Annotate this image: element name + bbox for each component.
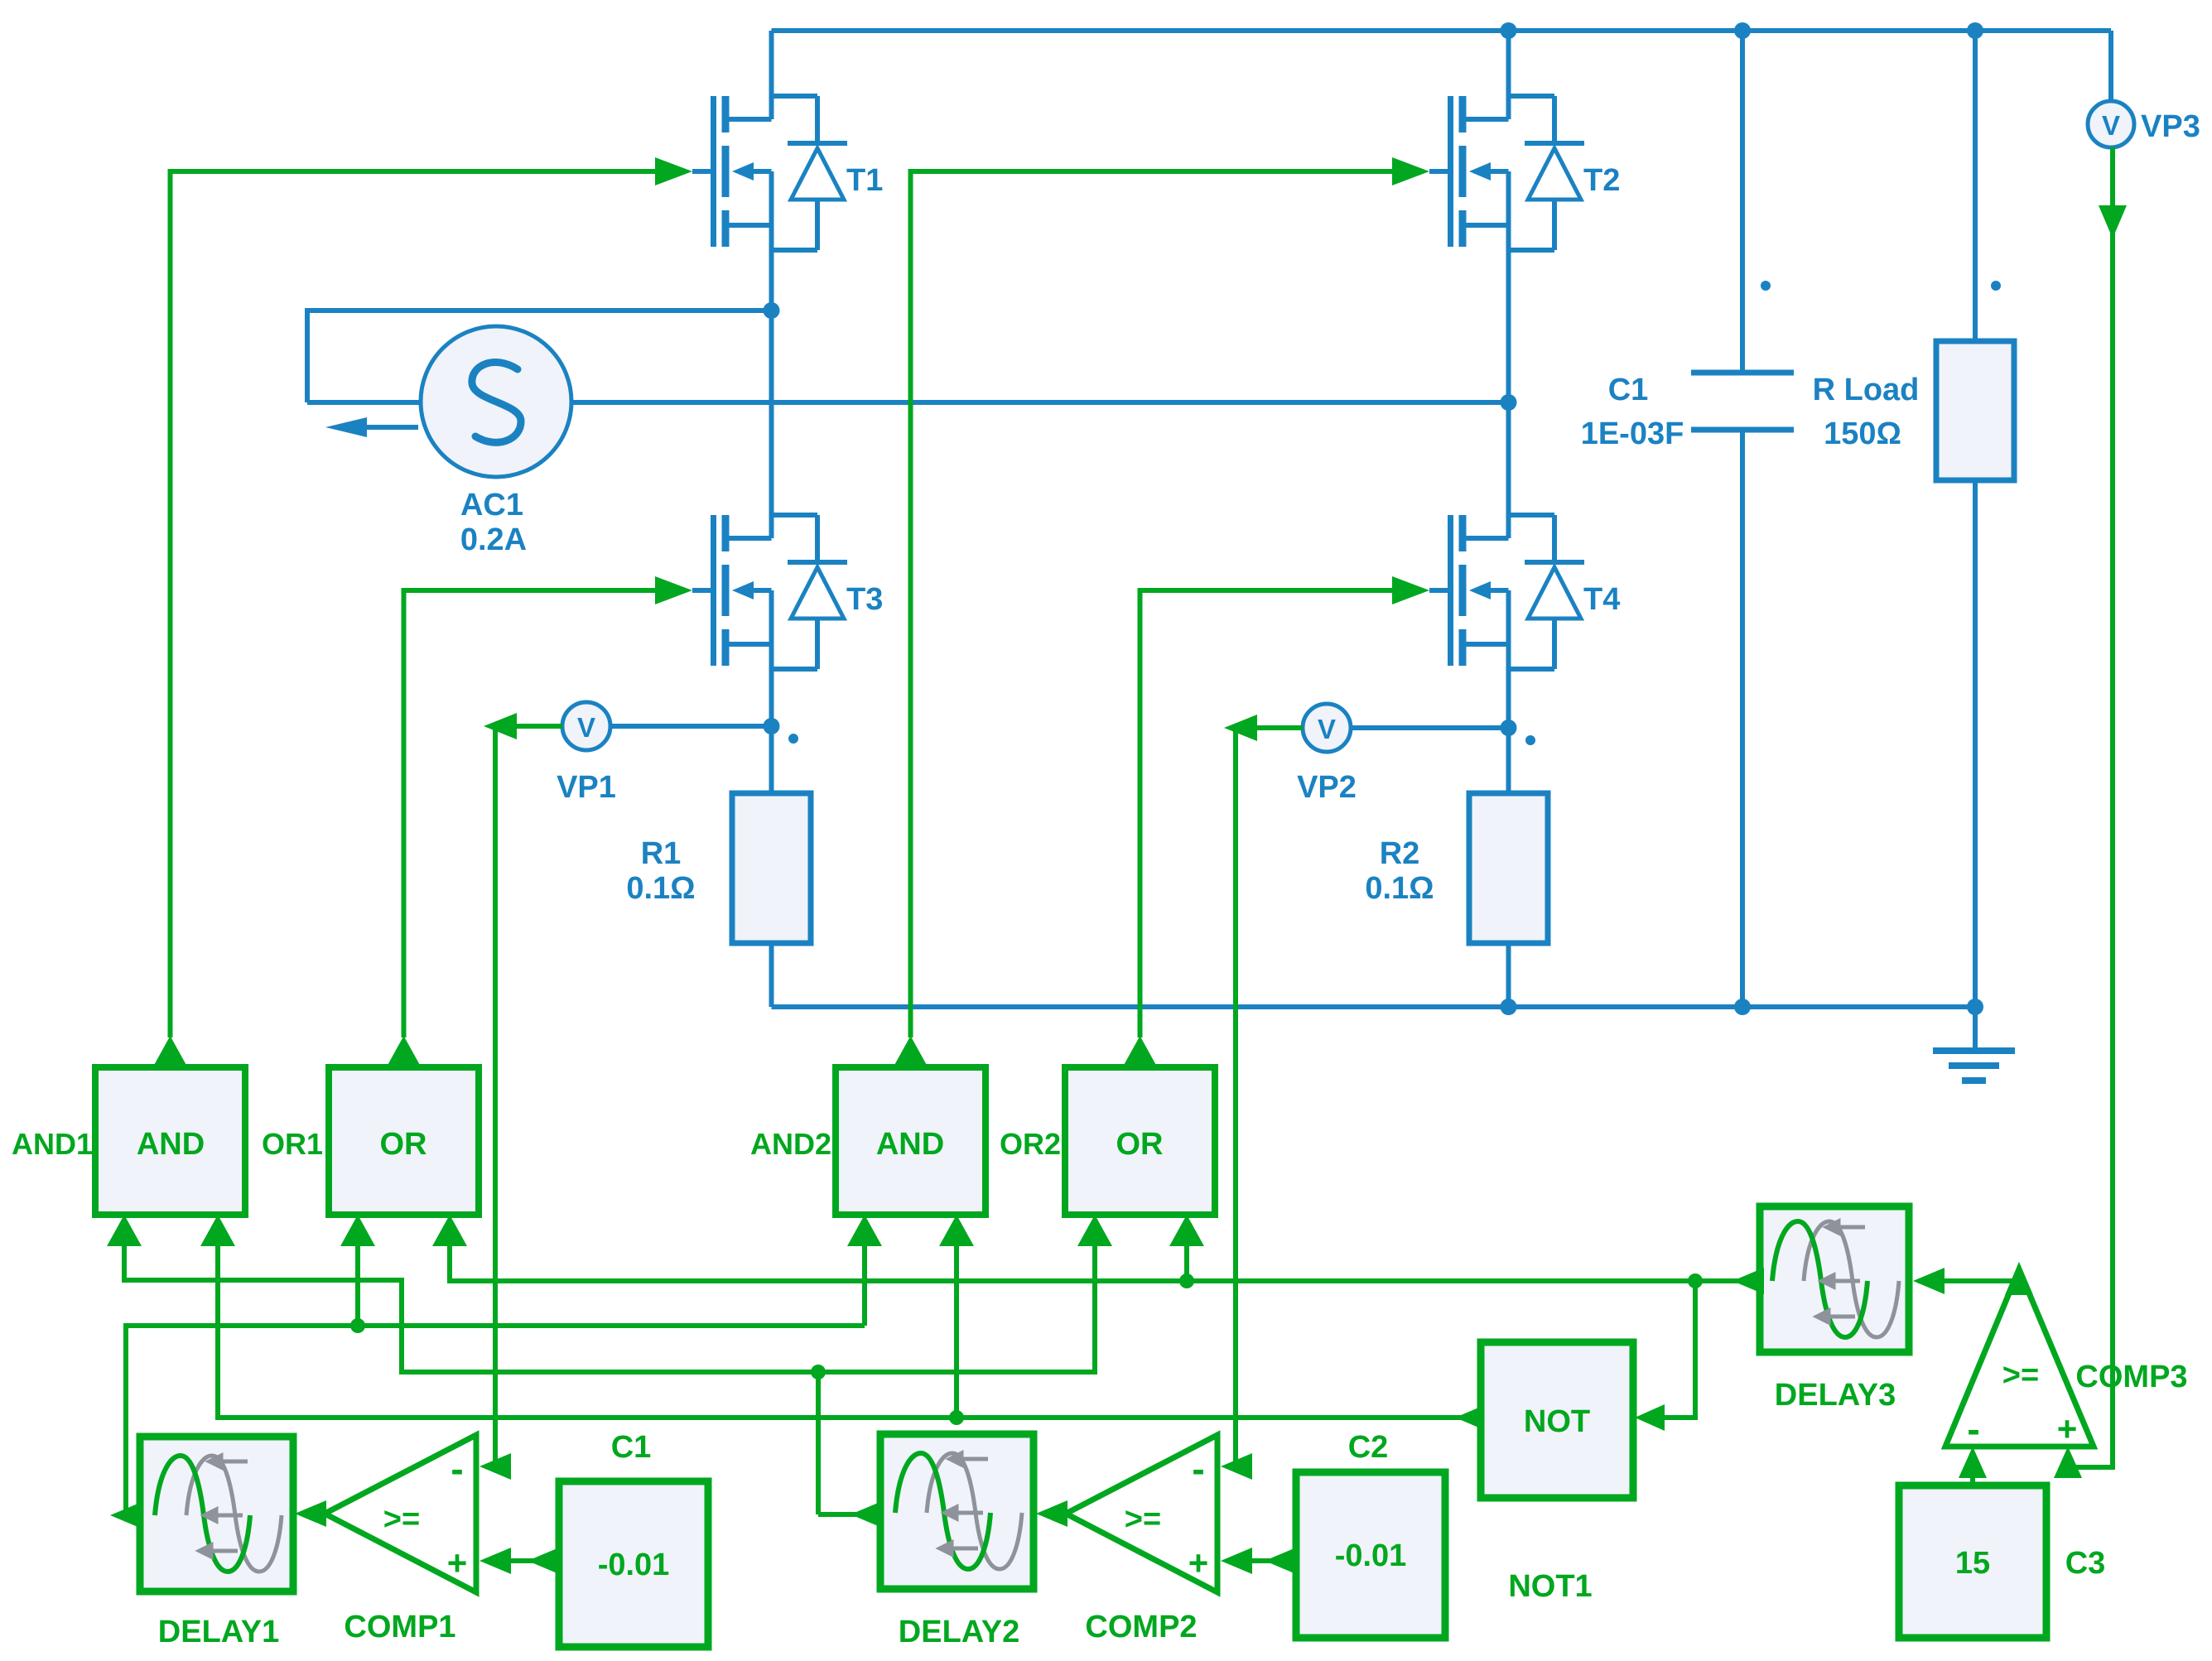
- svg-text:AND: AND: [137, 1127, 205, 1162]
- svg-text:+: +: [2057, 1409, 2078, 1448]
- svg-text:DELAY2: DELAY2: [899, 1615, 1019, 1649]
- arrow VP1 output port: [484, 713, 517, 739]
- wire top rail: [772, 28, 2112, 33]
- voltmeter VP1: [562, 702, 610, 750]
- svg-text:C3: C3: [2065, 1546, 2106, 1581]
- constant C1 box: [559, 1481, 708, 1647]
- svg-text:T3: T3: [846, 582, 883, 617]
- svg-text:15: 15: [1955, 1546, 1990, 1581]
- arrow OR1 input 1: [340, 1215, 375, 1246]
- comparator COMP1: [325, 1435, 476, 1592]
- logic NOT box: [1481, 1342, 1633, 1498]
- arrow into COMP2 minus: [1221, 1453, 1252, 1480]
- svg-text:-0.01: -0.01: [598, 1548, 670, 1582]
- wire OR1 output to T3 gate: [404, 590, 660, 1038]
- wire AC1 left lead: [307, 400, 421, 405]
- wire VP1 riser to COMP1 minus: [495, 726, 509, 1466]
- svg-text:COMP2: COMP2: [1085, 1610, 1197, 1644]
- svg-text:NOT: NOT: [1524, 1404, 1590, 1439]
- transistor T1: [692, 31, 847, 311]
- node AND2 input2 on Y4: [949, 1410, 964, 1425]
- svg-text:-: -: [1192, 1447, 1204, 1490]
- svg-text:-0.01: -0.01: [1335, 1538, 1407, 1573]
- svg-text:AND: AND: [876, 1127, 944, 1162]
- svg-text:R1: R1: [641, 836, 682, 871]
- svg-text:OR: OR: [380, 1127, 427, 1162]
- voltmeter VP2: [1303, 704, 1351, 752]
- svg-text:OR2: OR2: [1000, 1127, 1061, 1161]
- ground: [1973, 1007, 1978, 1048]
- dot polarity R1: [788, 734, 798, 744]
- arrow AND1 input 1: [107, 1215, 142, 1246]
- arrow AND1 input 2: [200, 1215, 235, 1246]
- wire OR1 input1 riser: [355, 1246, 360, 1326]
- svg-text:V: V: [2102, 110, 2120, 141]
- arrow into T3 gate: [655, 576, 692, 604]
- wire AC1 right lead: [571, 400, 1509, 405]
- wire bottom rail: [772, 1004, 1976, 1009]
- arrow AND2 output port: [894, 1036, 928, 1067]
- constant C3 box: [1899, 1485, 2046, 1638]
- constant C2 box: [1296, 1472, 1445, 1638]
- svg-text:-: -: [1967, 1408, 1979, 1451]
- wire COMP3 output to DELAY3: [1918, 1278, 2019, 1283]
- svg-text:COMP1: COMP1: [344, 1610, 455, 1644]
- arrow VP3 flow down: [2099, 205, 2127, 238]
- svg-text:C1: C1: [611, 1430, 652, 1465]
- delay block DELAY3: [1760, 1206, 1909, 1352]
- node OR2 input2 on Y1: [1179, 1273, 1194, 1288]
- svg-text:+: +: [447, 1543, 468, 1582]
- svg-text:R2: R2: [1380, 836, 1420, 871]
- wire VP1 output: [515, 724, 562, 729]
- arrow OR1 output port: [387, 1036, 422, 1067]
- arrow AND2 input 2: [939, 1215, 974, 1246]
- arrow DELAY1 output port: [110, 1502, 142, 1529]
- node C1 top on top rail: [1734, 22, 1751, 39]
- wire NOT input drop: [1646, 1281, 1695, 1418]
- svg-text:-: -: [451, 1447, 463, 1490]
- arrow AND2 input 1: [847, 1215, 882, 1246]
- node ground: [1967, 999, 1983, 1015]
- node VP1 / R1 top: [764, 718, 780, 734]
- svg-text:0.1Ω: 0.1Ω: [1365, 871, 1434, 906]
- wire C1 to COMP1 plus: [509, 1558, 559, 1563]
- wire OR2 output to T4 gate: [1140, 590, 1397, 1038]
- svg-text:OR1: OR1: [262, 1127, 323, 1161]
- wire VP2 to T4 source: [1351, 725, 1509, 730]
- resistor R Load: [1973, 31, 1978, 341]
- svg-text:AND1: AND1: [12, 1127, 93, 1161]
- arrow into DELAY3 input: [1913, 1268, 1945, 1294]
- wire OR2 input2 riser: [1184, 1246, 1189, 1281]
- arrow VP2 output port: [1224, 715, 1257, 741]
- resistor R1: [769, 728, 774, 793]
- wire net DELAY2out bus Y3: [124, 1246, 1095, 1372]
- arrow DELAY3 output port: [1732, 1268, 1764, 1294]
- arrow into COMP2 plus: [1221, 1548, 1252, 1574]
- node T2 source / T4 drain: [1501, 394, 1517, 411]
- arrow into T1 gate: [655, 157, 692, 185]
- arrow into NOT input: [1635, 1404, 1665, 1431]
- comparator COMP2: [1066, 1435, 1217, 1592]
- wire VP2 riser to COMP2 minus: [1236, 728, 1251, 1466]
- arrow into COMP1 minus: [480, 1453, 511, 1480]
- arrow COMP2 output to DELAY2: [1036, 1500, 1067, 1527]
- transistor T3: [692, 515, 847, 728]
- arrow COMP1 output to DELAY1: [295, 1500, 326, 1527]
- arrow into T2 gate: [1392, 157, 1429, 185]
- node R2 bottom: [1501, 999, 1517, 1015]
- node OR1 input1 on Y2: [350, 1318, 365, 1333]
- capacitor C1: [1740, 31, 1745, 373]
- arrow AND1 output port: [153, 1036, 188, 1067]
- node DELAY2 output on Y3: [811, 1365, 826, 1379]
- gate AND2 box: [836, 1067, 986, 1215]
- arrow OR2 input 1: [1077, 1215, 1112, 1246]
- svg-text:>=: >=: [2002, 1358, 2039, 1393]
- svg-text:NOT1: NOT1: [1508, 1569, 1592, 1604]
- node VP2 / R2 top: [1501, 720, 1517, 736]
- svg-text:C1: C1: [1608, 373, 1649, 407]
- arrow into COMP1 plus: [480, 1548, 511, 1574]
- wire VP3 riser to COMP3 plus: [2068, 147, 2113, 1474]
- delay block DELAY1: [140, 1437, 293, 1591]
- svg-text:AND2: AND2: [750, 1127, 831, 1161]
- wire AND1 output to T1 gate: [171, 171, 660, 1038]
- svg-text:T2: T2: [1583, 163, 1620, 198]
- arrow C1 output port: [528, 1548, 559, 1574]
- arrow COMP3 output port: [2005, 1262, 2033, 1295]
- svg-text:+: +: [1188, 1543, 1209, 1582]
- arrow OR2 output port: [1123, 1036, 1158, 1067]
- dot polarity R2: [1525, 735, 1535, 745]
- wire net DELAY3out bus Y1: [450, 1246, 1760, 1281]
- wire VP2 output: [1255, 725, 1303, 730]
- svg-text:150Ω: 150Ω: [1824, 416, 1901, 451]
- node T1 source / T3 drain: [764, 302, 780, 319]
- wire C3 to COMP3 minus: [1970, 1474, 1975, 1485]
- svg-text:R Load: R Load: [1813, 373, 1920, 407]
- wire net DELAY1out bus Y2: [126, 1326, 865, 1515]
- gate OR2 box: [1065, 1067, 1215, 1215]
- transistor T2: [1429, 31, 1584, 402]
- svg-text:OR: OR: [1116, 1127, 1164, 1162]
- svg-text:0.2A: 0.2A: [460, 522, 527, 557]
- svg-text:T4: T4: [1583, 582, 1620, 617]
- source AC1: [421, 326, 571, 477]
- node T2 drain on top rail: [1501, 22, 1517, 39]
- resistor R2: [1506, 728, 1511, 793]
- svg-text:>=: >=: [383, 1502, 420, 1537]
- voltmeter VP3: [2088, 101, 2134, 147]
- comparator COMP3: [1945, 1269, 2094, 1447]
- wire net NOT1out bus Y4: [218, 1246, 1481, 1418]
- wire AND2 output to T2 gate: [911, 171, 1397, 1038]
- svg-text:DELAY1: DELAY1: [158, 1615, 279, 1649]
- wire AND2 input2 riser: [954, 1246, 959, 1418]
- svg-text:C2: C2: [1348, 1430, 1389, 1465]
- wire VP3 stub: [2108, 31, 2113, 101]
- svg-text:>=: >=: [1125, 1502, 1161, 1537]
- svg-text:DELAY3: DELAY3: [1775, 1378, 1896, 1413]
- svg-text:VP1: VP1: [557, 770, 616, 805]
- arrow DELAY2 output port: [851, 1501, 882, 1528]
- svg-text:VP2: VP2: [1297, 770, 1357, 805]
- gate OR1 box: [329, 1067, 479, 1215]
- arrow into COMP3 minus: [1959, 1447, 1987, 1478]
- node C1 bottom: [1734, 999, 1751, 1015]
- wire DELAY2 output riser: [816, 1372, 821, 1514]
- arrow OR2 input 2: [1169, 1215, 1204, 1246]
- wire AND2 input1 riser: [862, 1246, 867, 1326]
- svg-text:COMP3: COMP3: [2075, 1360, 2187, 1394]
- wire T3 drain lead: [769, 311, 774, 538]
- delay block DELAY2: [880, 1434, 1034, 1589]
- svg-text:1E-03F: 1E-03F: [1581, 416, 1684, 451]
- wire C2 to COMP2 plus: [1251, 1558, 1296, 1563]
- arrow NOT output port: [1455, 1404, 1487, 1431]
- arrow into COMP3 plus: [2054, 1447, 2082, 1478]
- node R Load top on top rail: [1967, 22, 1983, 39]
- arrow AC1 current direction: [325, 417, 367, 437]
- wire AC1 left loop up: [307, 311, 772, 402]
- svg-text:V: V: [1318, 714, 1336, 744]
- svg-text:VP3: VP3: [2141, 109, 2200, 144]
- arrow OR1 input 2: [432, 1215, 467, 1246]
- wire DELAY2 output lead: [818, 1512, 880, 1517]
- gate AND1 box: [95, 1067, 245, 1215]
- svg-text:V: V: [577, 712, 595, 743]
- node NOT input tap on Y1: [1688, 1273, 1703, 1288]
- svg-text:AC1: AC1: [460, 488, 523, 522]
- wire VP1 to T3 source: [610, 724, 772, 729]
- svg-text:T1: T1: [846, 163, 883, 198]
- arrow into T4 gate: [1392, 576, 1429, 604]
- arrow C2 output port: [1265, 1548, 1296, 1574]
- transistor T4: [1429, 402, 1584, 728]
- svg-text:0.1Ω: 0.1Ω: [626, 871, 695, 906]
